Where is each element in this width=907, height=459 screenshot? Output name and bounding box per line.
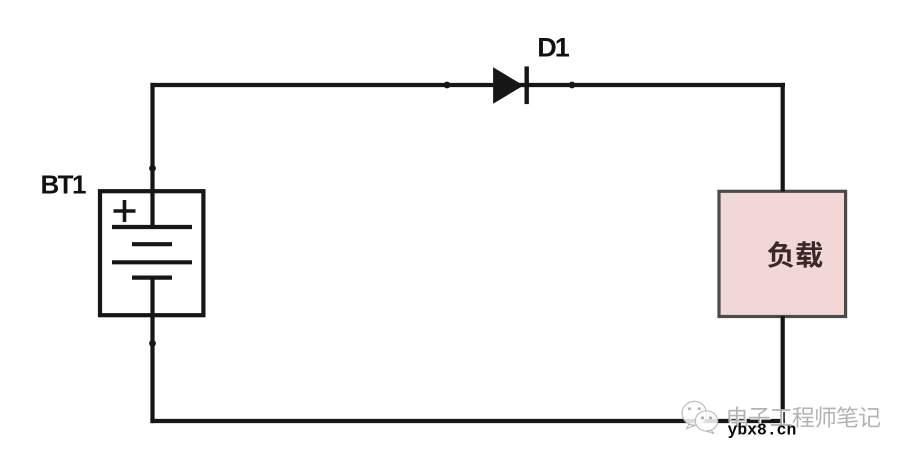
junction dot on top wire left of diode: [444, 82, 451, 89]
battery short plate 1: [132, 242, 172, 246]
svg-text:BT1: BT1: [41, 170, 86, 200]
wire: left vertical, battery negative plate down to bottom corner: [150, 278, 154, 424]
diode D1 cathode bar: [525, 66, 529, 104]
battery long plate 1 (positive): [112, 225, 192, 229]
watermark icon: chat bubble large (left): [682, 401, 706, 428]
svg-text:ybx8.cn: ybx8.cn: [728, 420, 797, 439]
battery plus sign: [114, 200, 136, 222]
wire: right vertical, top corner down to load box: [781, 83, 785, 192]
junction dot on top wire right of diode: [569, 82, 576, 89]
watermark text 电子工程师笔记 (gray layer): [728, 406, 880, 427]
battery short plate 2 (negative): [132, 276, 172, 280]
junction dot on left wire above battery: [149, 165, 156, 172]
watermark icon: chat bubble small (right): [695, 411, 717, 434]
watermark text 电子工程师笔记 (white emboss layer): [730, 408, 882, 429]
wire: bottom horizontal return: [150, 419, 784, 423]
svg-text:D1: D1: [537, 32, 569, 62]
load label 负 (glyph path): [768, 241, 794, 268]
junction dot on left wire below battery: [149, 340, 156, 347]
load box (负载): [719, 191, 846, 316]
load label 载 (glyph path): [796, 241, 822, 268]
battery long plate 2: [112, 260, 192, 264]
wire: right vertical, load box down to bottom corner: [781, 316, 785, 423]
battery BT1 body box: [100, 191, 203, 315]
wire: left vertical, top corner down into battery positive plate: [150, 83, 154, 227]
wire: top horizontal from battery to load: [150, 83, 785, 87]
diode D1 triangle (anode): [493, 67, 523, 103]
